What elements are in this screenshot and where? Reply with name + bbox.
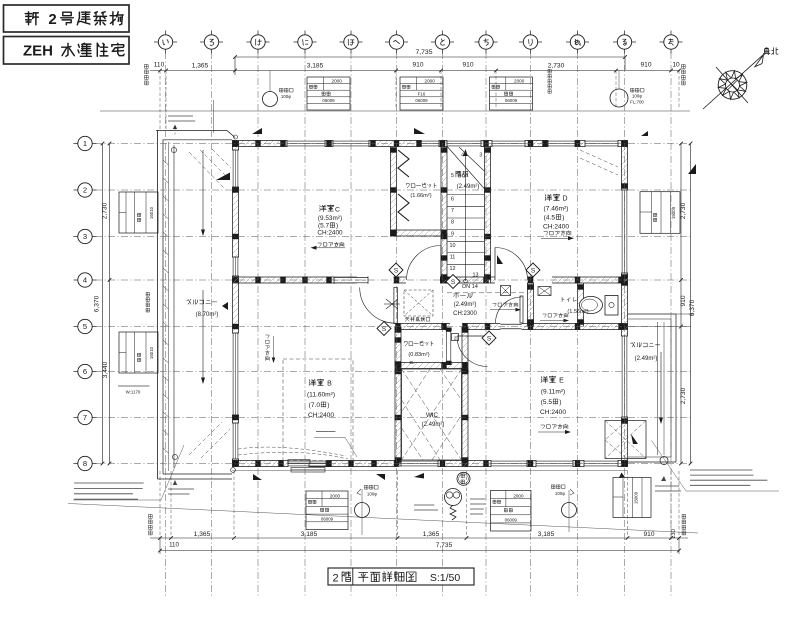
svg-text:910: 910: [640, 62, 651, 69]
floor direction 洋室D: [541, 231, 574, 241]
svg-text:2: 2: [48, 11, 56, 28]
balcony drain: [660, 457, 668, 465]
svg-text:16010: 16010: [149, 346, 154, 359]
svg-text:3: 3: [83, 232, 87, 241]
dashed accent curves south wall: [238, 447, 348, 459]
right shaft hatch: [605, 421, 646, 459]
svg-text:(2.49m²): (2.49m²): [422, 422, 445, 428]
svg-text:(8.70m²): (8.70m²): [196, 312, 219, 318]
toilet: [580, 296, 619, 316]
window schedule table top B: [400, 77, 443, 110]
svg-text:15009: 15009: [634, 491, 639, 504]
bottom table 2: [491, 491, 532, 532]
svg-text:7,735: 7,735: [436, 542, 453, 549]
svg-text:2000: 2000: [514, 78, 525, 83]
svg-text:110: 110: [154, 62, 165, 69]
svg-text:6: 6: [83, 367, 87, 376]
stairs treads: [447, 147, 484, 265]
fan note: [470, 499, 486, 514]
svg-text:100φ: 100φ: [555, 491, 565, 496]
sash symbol S2: [526, 263, 540, 277]
svg-text:2000: 2000: [425, 78, 436, 83]
door 洋室B leaf and arc: [360, 287, 400, 323]
window schedule table right: [640, 192, 680, 234]
svg-text:ZEH: ZEH: [23, 43, 53, 60]
stairs numbers: [450, 153, 483, 279]
svg-text:100φ: 100φ: [281, 94, 291, 99]
svg-text:(9.11m²): (9.11m²): [541, 389, 565, 396]
window schedule table top A: [307, 77, 350, 110]
svg-text:3: 3: [479, 153, 482, 159]
svg-text:1,365: 1,365: [192, 63, 209, 70]
room label クローゼット小: [404, 341, 433, 365]
svg-text:1: 1: [83, 139, 87, 148]
roof dashes bottom-left corner: [189, 422, 230, 458]
svg-text:2,730: 2,730: [548, 63, 565, 70]
vent bottom-left 給気口: [355, 485, 379, 535]
svg-text:910: 910: [412, 62, 423, 69]
left balcony label: [187, 299, 228, 318]
room label 洋室E: [540, 376, 566, 416]
header box 2: ZEH水準住宅: [4, 37, 130, 65]
svg-text:(7.46m²): (7.46m²): [544, 206, 569, 213]
note balcony spec bottom-left: [68, 445, 698, 533]
sliding door panels south: [288, 460, 331, 467]
WIC cross hatch: [402, 369, 462, 460]
svg-text:6: 6: [451, 197, 454, 203]
svg-text:EL: EL: [409, 360, 415, 365]
horizontal grid lines: [95, 144, 692, 464]
svg-text:CH:2400: CH:2400: [317, 230, 343, 237]
svg-text:6,370: 6,370: [689, 299, 696, 316]
svg-text:130: 130: [671, 529, 677, 539]
section markers: [216, 128, 696, 480]
window schedule table left 1: [119, 192, 158, 233]
stairs center arrow: [463, 149, 467, 283]
svg-text:5: 5: [451, 173, 454, 179]
svg-text:8: 8: [451, 220, 454, 226]
svg-text:S: S: [382, 326, 387, 333]
svg-text:FL:700: FL:700: [630, 100, 644, 105]
corner vertical note top-right: [682, 65, 686, 85]
sash symbol S5: [377, 322, 391, 336]
exterior wall: east (right): [621, 141, 628, 467]
svg-text:1,365: 1,365: [194, 531, 211, 538]
svg-text:12: 12: [450, 266, 456, 272]
window schedule table left 2: [119, 332, 158, 373]
svg-text:(2.49m²): (2.49m²): [457, 184, 480, 190]
roof dashes top-left corner: [189, 149, 231, 188]
right dimension lines: [628, 142, 696, 466]
svg-text:2,730: 2,730: [680, 387, 687, 404]
svg-text:5: 5: [83, 322, 87, 331]
stairs DN 14 label: [462, 284, 478, 290]
bottom total dimension 7,735: [158, 538, 681, 554]
svg-text:(11.60m²): (11.60m²): [307, 392, 335, 399]
svg-text:S: S: [394, 267, 399, 274]
svg-text:15009: 15009: [671, 206, 676, 219]
svg-text:2000: 2000: [332, 78, 343, 83]
exterior wall: south (bottom): [232, 460, 628, 467]
svg-text:8: 8: [83, 459, 87, 468]
floor direction 洋室C: [311, 242, 346, 250]
exterior wall: north (top): [232, 140, 628, 147]
interior wall: stair east: [484, 147, 491, 284]
svg-text:(2.49m²): (2.49m²): [454, 302, 477, 308]
hall ceiling dashed line: [447, 292, 528, 294]
floor direction 洋室E: [538, 424, 571, 434]
note ネオパール管 bottom-right: [655, 476, 681, 491]
svg-text:06009: 06009: [505, 517, 518, 522]
svg-text:(5.5: (5.5: [541, 399, 553, 406]
svg-text:): ): [559, 399, 561, 406]
svg-text:(1.66m²): (1.66m²): [410, 193, 431, 199]
svg-text:3,185: 3,185: [538, 531, 555, 538]
door arc 洋室E closet side: [457, 336, 488, 367]
note ネオパール管 bottom-left: [168, 489, 194, 494]
door opening 洋室B: [357, 276, 394, 284]
room label 洋室C: [317, 205, 343, 237]
interior wall: WIC north: [395, 362, 468, 369]
sill of south sliding door: [291, 468, 325, 473]
svg-text:06009: 06009: [505, 98, 518, 103]
door opening washroom: [534, 276, 552, 284]
svg-text:2000: 2000: [513, 493, 524, 498]
svg-text:): ): [562, 215, 564, 222]
svg-text:06009: 06009: [322, 98, 335, 103]
WIC label: [422, 412, 445, 428]
svg-text:WIC: WIC: [426, 412, 439, 419]
bottom table 1: [306, 491, 348, 530]
svg-text:110: 110: [169, 542, 179, 549]
roof dashes top-right corner: [580, 150, 618, 175]
floor direction 洋室B vertical: [265, 335, 275, 363]
svg-text:CH:2400: CH:2400: [543, 224, 569, 231]
corner vertical note bottom-right: [682, 515, 686, 535]
room label 階段: [456, 171, 479, 190]
svg-text:B: B: [327, 381, 332, 388]
svg-text:S:1/50: S:1/50: [430, 572, 461, 584]
wall duct note: [414, 505, 438, 510]
interior wall: closet C south: [391, 230, 448, 237]
svg-text:CH:2400: CH:2400: [308, 412, 334, 419]
bottom dimension line: [150, 471, 688, 549]
svg-text:F16: F16: [418, 91, 426, 96]
door opening 洋室C: [406, 276, 440, 284]
note balcony spec bottom-right: [652, 441, 780, 492]
door opening 洋室D: [495, 276, 527, 284]
top dimension line: [150, 62, 681, 134]
svg-text:100φ: 100φ: [367, 492, 377, 497]
washbasin: [538, 287, 551, 296]
room label 洋室B: [307, 379, 335, 419]
sash symbol S3: [482, 331, 496, 345]
washroom door opening in south wall: [501, 323, 522, 330]
vent bottom-right 換気口: [552, 485, 577, 532]
svg-text:(0.83m²): (0.83m²): [408, 352, 429, 358]
svg-text:DN 14: DN 14: [462, 284, 478, 290]
svg-text:11: 11: [450, 255, 456, 261]
door arc 洋室D: [495, 248, 528, 281]
svg-text:910: 910: [462, 62, 473, 69]
bottom-right rotated table: [613, 478, 651, 518]
svg-text:(7.0: (7.0: [309, 402, 321, 409]
closet C hanger symbols: [398, 150, 409, 221]
washing machine: [501, 286, 511, 296]
vent top-left 換気口: [263, 71, 294, 107]
sash symbol S1: [389, 263, 403, 277]
svg-text:06009: 06009: [415, 98, 428, 103]
svg-text:E: E: [559, 378, 564, 385]
svg-text:100φ: 100φ: [632, 94, 642, 99]
north arrow compass: [703, 48, 778, 109]
interior wall: closet C west: [390, 147, 397, 237]
svg-text:(2.49m²): (2.49m²): [635, 356, 658, 362]
closet sliding door panel: [446, 328, 452, 366]
left dimension lines: [93, 142, 111, 466]
svg-text:CH:2400: CH:2400: [540, 409, 566, 416]
left grid bubbles 1-8: [74, 136, 97, 470]
corner vertical note bottom-left: [149, 515, 153, 535]
svg-text:S: S: [487, 335, 492, 342]
hall equipment box: [452, 334, 459, 341]
svg-text:2: 2: [83, 186, 87, 195]
note 335ガラリ W:1170: [118, 386, 149, 395]
dashed ceiling rect 洋室B: [283, 359, 353, 461]
right balcony label: [631, 342, 660, 362]
svg-text:10: 10: [672, 62, 680, 69]
svg-text:2,730: 2,730: [680, 202, 687, 219]
svg-text:06009: 06009: [321, 516, 334, 521]
window schedule table top C: [490, 77, 533, 110]
room label 洋室D: [543, 194, 569, 230]
svg-text:W:1170: W:1170: [126, 390, 141, 395]
left balcony walls: [156, 131, 238, 480]
svg-text:S: S: [531, 267, 536, 274]
header box 1: 新2号建築物: [4, 5, 130, 32]
exhaust fan symbol: [445, 489, 462, 521]
left balcony drain arrows: [201, 150, 205, 384]
vent top-right 換気口: [610, 71, 644, 108]
svg-text:2: 2: [332, 573, 338, 585]
svg-text:3,440: 3,440: [102, 361, 109, 378]
interior wall: closet/WIC west: [395, 327, 402, 467]
svg-text:7: 7: [451, 208, 454, 214]
room label トイレ: [562, 297, 589, 315]
svg-text:3,185: 3,185: [301, 531, 318, 538]
svg-text:16010: 16010: [149, 206, 154, 219]
top total dimension 7,735: [233, 49, 627, 75]
interior wall: middle corridor: [232, 277, 628, 284]
right balcony outline: [628, 314, 694, 462]
svg-text:): ): [327, 402, 329, 409]
interior wall: 洋室E west: [462, 327, 469, 467]
note アクセント1903: [314, 432, 357, 458]
corner vertical note top-left: [145, 65, 149, 85]
door arc 洋室C: [407, 246, 442, 281]
svg-text:(1.56m²): (1.56m²): [567, 309, 588, 315]
svg-text:CH:2300: CH:2300: [453, 311, 477, 317]
svg-text:(9.53m²): (9.53m²): [318, 215, 342, 222]
svg-text:S: S: [451, 279, 456, 286]
svg-text:(5.7: (5.7: [318, 223, 329, 230]
svg-text:910: 910: [643, 531, 654, 538]
svg-text:10: 10: [450, 243, 456, 249]
floor direction 洗面: [540, 313, 569, 322]
top grid bubbles い-を: [154, 31, 683, 54]
finish note line: [100, 110, 690, 112]
room label ホール: [453, 293, 477, 317]
svg-text:4: 4: [83, 276, 87, 285]
note ネオパール管 top-left: [168, 116, 195, 135]
south wall base line: [232, 470, 628, 472]
right balcony drain arrow: [659, 352, 663, 424]
svg-text:2,730: 2,730: [101, 202, 108, 219]
exterior wall: west (left): [232, 141, 239, 467]
room label クローゼットC: [406, 183, 436, 199]
interior wall: washroom south: [462, 323, 628, 330]
svg-text:2000: 2000: [330, 493, 341, 498]
sash symbol B1: [446, 275, 460, 289]
svg-text:7,735: 7,735: [415, 49, 432, 56]
ceiling access hatch 天井点検口: [404, 290, 433, 321]
interior wall: toilet west: [577, 283, 584, 327]
vertical note スリガラス: [548, 69, 551, 93]
interior wall: washroom west: [527, 283, 534, 327]
svg-text:1,365: 1,365: [423, 531, 440, 538]
transom panel mid wall: [334, 277, 368, 284]
title box 2階平面詳細図: [328, 568, 474, 585]
svg-text:): ): [336, 223, 338, 230]
svg-text:2: 2: [454, 335, 457, 340]
wall finish vertical note left: [146, 293, 149, 313]
washroom door leaf and arc: [496, 296, 524, 323]
svg-text:D: D: [562, 196, 567, 203]
svg-text:4: 4: [461, 153, 464, 159]
svg-text:(4.5: (4.5: [544, 215, 556, 222]
floor direction ホール: [490, 302, 521, 311]
svg-text:910: 910: [680, 295, 687, 306]
svg-text:13: 13: [473, 273, 479, 279]
interior wall: stair west: [441, 147, 448, 284]
vertical grid lines: [166, 52, 672, 597]
power symbol circle: [457, 472, 470, 485]
interior wall: closet hall south: [395, 323, 450, 330]
svg-text:3,185: 3,185: [307, 63, 324, 70]
svg-text:7: 7: [83, 413, 87, 422]
svg-text:6,370: 6,370: [93, 295, 100, 312]
svg-text:C: C: [335, 206, 340, 213]
